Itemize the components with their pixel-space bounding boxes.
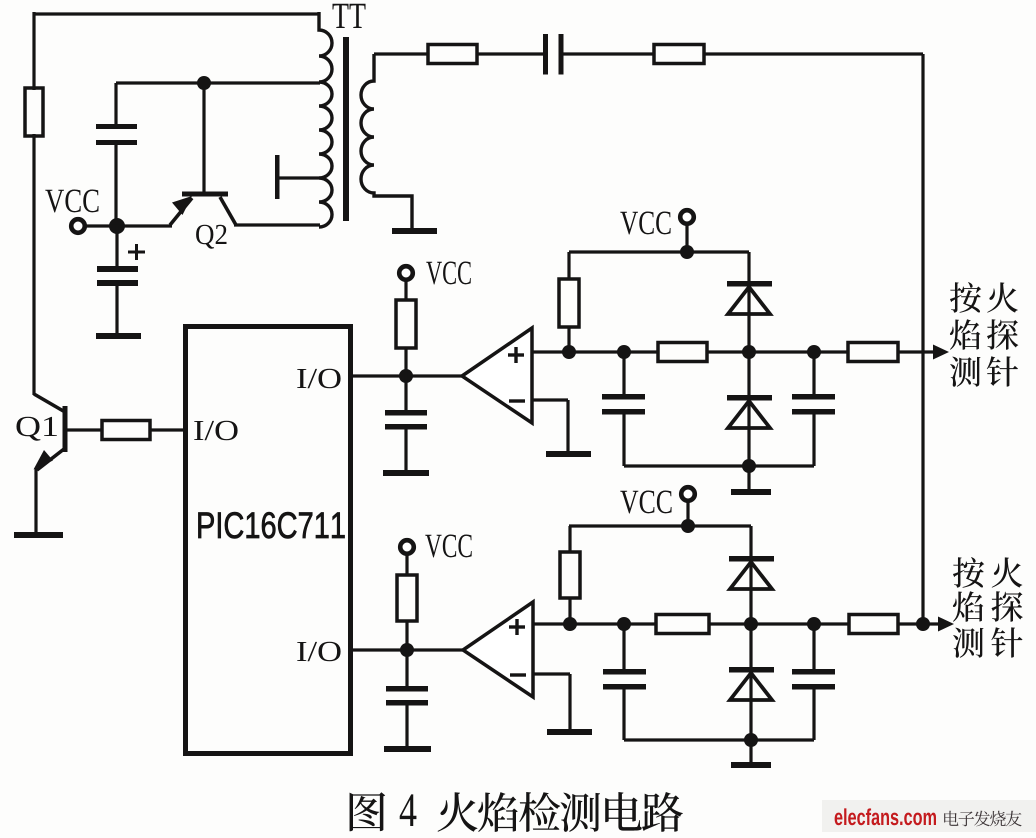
diode D4 xyxy=(729,624,774,740)
wire (VCC to diode D3) xyxy=(749,526,752,624)
logo background strip xyxy=(822,800,1036,832)
resistor (U1 pullup) xyxy=(396,279,416,376)
node xyxy=(563,617,577,631)
node xyxy=(807,617,821,631)
pin label I/O (right bottom) xyxy=(297,642,340,661)
ground (U2 minus) xyxy=(547,729,592,735)
ground (U1 minus) xyxy=(546,451,591,457)
wire (capacitor to resistor) xyxy=(563,52,654,55)
transformer core xyxy=(343,37,349,221)
resistor (lower feedback to VCC) xyxy=(560,526,580,624)
node xyxy=(617,345,631,359)
node (Q2 base junction) xyxy=(197,76,211,90)
node (U1 output junction) xyxy=(399,369,413,383)
label probe (lower) xyxy=(953,557,1023,658)
node xyxy=(742,345,756,359)
wire (lower main line) xyxy=(533,622,656,625)
capacitor (electrolytic at VCC) xyxy=(97,226,138,334)
resistor (upper main 1) xyxy=(658,343,707,362)
node xyxy=(742,459,756,473)
label VCC (lower mid) xyxy=(425,534,471,557)
capacitor (lower left filter) xyxy=(603,624,646,740)
transformer tap electrode xyxy=(275,155,319,199)
label TT xyxy=(333,4,366,28)
arrow (lower probe output) xyxy=(938,617,954,632)
capacitor (U2 output) xyxy=(386,650,428,747)
node (VCC junction) xyxy=(109,218,125,234)
resistor (top chain 1) xyxy=(428,45,477,64)
VCC terminal (lower mid) xyxy=(400,540,414,554)
wire (lower bottom rail) xyxy=(624,738,814,741)
logo elecfans.com xyxy=(835,808,936,825)
polarity + (electrolytic cap) xyxy=(128,244,145,260)
ground (secondary) xyxy=(392,228,437,234)
wire (Q2 collector to transformer) xyxy=(234,223,320,226)
IC PIC16C711 xyxy=(186,327,351,754)
node xyxy=(617,617,631,631)
wire (top right rail) xyxy=(704,54,923,624)
ground (lower diode chain) xyxy=(731,762,771,768)
resistor (U2 pullup) xyxy=(397,553,417,650)
label VCC (upper right) xyxy=(620,211,670,234)
resistor (top chain 2) xyxy=(654,45,704,64)
wire xyxy=(686,501,689,526)
resistor (lower main 1) xyxy=(656,615,709,634)
wire (secondary to resistor) xyxy=(374,52,428,55)
diode D3 xyxy=(729,556,774,589)
wire (upper bottom rail) xyxy=(624,464,814,467)
diode D2 xyxy=(727,352,772,466)
wire (VCC to Q2 emitter) xyxy=(84,224,172,227)
ground (electrolytic) xyxy=(96,333,141,339)
wire (upper main line) xyxy=(532,350,658,353)
wire (left vertical rail) xyxy=(32,12,35,395)
wire (U1 minus to ground) xyxy=(532,400,568,452)
caption 火焰检测电路 xyxy=(438,792,683,832)
capacitor (upper right filter) xyxy=(792,352,835,466)
transistor Q1 xyxy=(34,394,68,534)
wire (lower VCC rail) xyxy=(569,524,751,527)
wire xyxy=(707,350,848,353)
wire (U2 minus to ground) xyxy=(533,674,570,730)
label Q1 xyxy=(16,417,56,441)
wire xyxy=(709,622,849,625)
resistor (lower main 2) xyxy=(849,615,898,634)
ground (U2 output cap) xyxy=(384,746,431,752)
transistor Q2 xyxy=(170,85,236,225)
wire (PIC to op-amp U2) xyxy=(353,648,464,651)
label VCC (lower right) xyxy=(620,490,671,513)
node xyxy=(807,345,821,359)
wire (upper VCC rail) xyxy=(569,250,749,253)
node xyxy=(744,733,758,747)
wire (Q1 base to resistor) xyxy=(66,428,102,431)
wire xyxy=(747,466,750,490)
node (upper VCC) xyxy=(680,245,694,259)
label probe (upper) xyxy=(950,282,1018,387)
VCC terminal (top-left) xyxy=(71,219,85,233)
capacitor (upper left filter) xyxy=(602,352,645,466)
resistor (upper main 2) xyxy=(848,343,898,362)
wire (VCC to diode D1) xyxy=(747,252,750,352)
node (U2 output junction) xyxy=(400,643,414,657)
logo 电子发烧友 xyxy=(944,811,1022,827)
ground (Q1 emitter) xyxy=(14,532,63,538)
VCC terminal (upper right) xyxy=(680,210,694,224)
wire xyxy=(685,224,688,252)
wire (resistor to capacitor) xyxy=(477,52,544,55)
caption 图4 xyxy=(350,792,417,831)
wire (top horizontal rail) xyxy=(34,12,319,15)
label VCC (top-left) xyxy=(45,189,98,212)
op-amp U1 xyxy=(462,328,532,423)
wire (to probe arrow) xyxy=(898,622,941,625)
resistor (upper feedback to VCC) xyxy=(559,252,579,352)
resistor (left rail) xyxy=(25,88,43,136)
node (lower VCC) xyxy=(681,519,695,533)
VCC terminal (upper mid) xyxy=(399,266,413,280)
op-amp U2 xyxy=(463,602,533,697)
wire (to probe arrow) xyxy=(898,350,936,353)
wire (resistor to PIC I/O) xyxy=(150,428,184,431)
capacitor (top chain) xyxy=(543,34,564,75)
resistor (Q1 base) xyxy=(102,421,150,440)
node xyxy=(744,617,758,631)
node (right rail end) xyxy=(916,617,930,631)
wire (PIC to op-amp U1) xyxy=(353,374,463,377)
ground (U1 output cap) xyxy=(383,470,429,476)
VCC terminal (lower right) xyxy=(681,487,695,501)
diode D1 xyxy=(727,281,772,314)
pin label I/O (right top) xyxy=(297,369,340,388)
node xyxy=(562,345,576,359)
arrow (upper probe output) xyxy=(933,345,949,360)
capacitor (lower right filter) xyxy=(792,624,835,740)
label PIC16C711 xyxy=(198,512,344,538)
ground (upper diode chain) xyxy=(731,489,771,495)
capacitor (U1 output) xyxy=(385,376,427,471)
label Q2 xyxy=(196,225,226,249)
pin label I/O (left) xyxy=(194,421,237,440)
wire (upper horizontal, cap/Q2 base) xyxy=(116,81,320,84)
wire xyxy=(749,740,752,763)
transformer TT primary winding xyxy=(319,12,332,227)
capacitor (coupling, top-left) xyxy=(96,83,137,226)
transformer TT secondary winding xyxy=(361,54,412,229)
label VCC (upper mid) xyxy=(426,261,471,284)
